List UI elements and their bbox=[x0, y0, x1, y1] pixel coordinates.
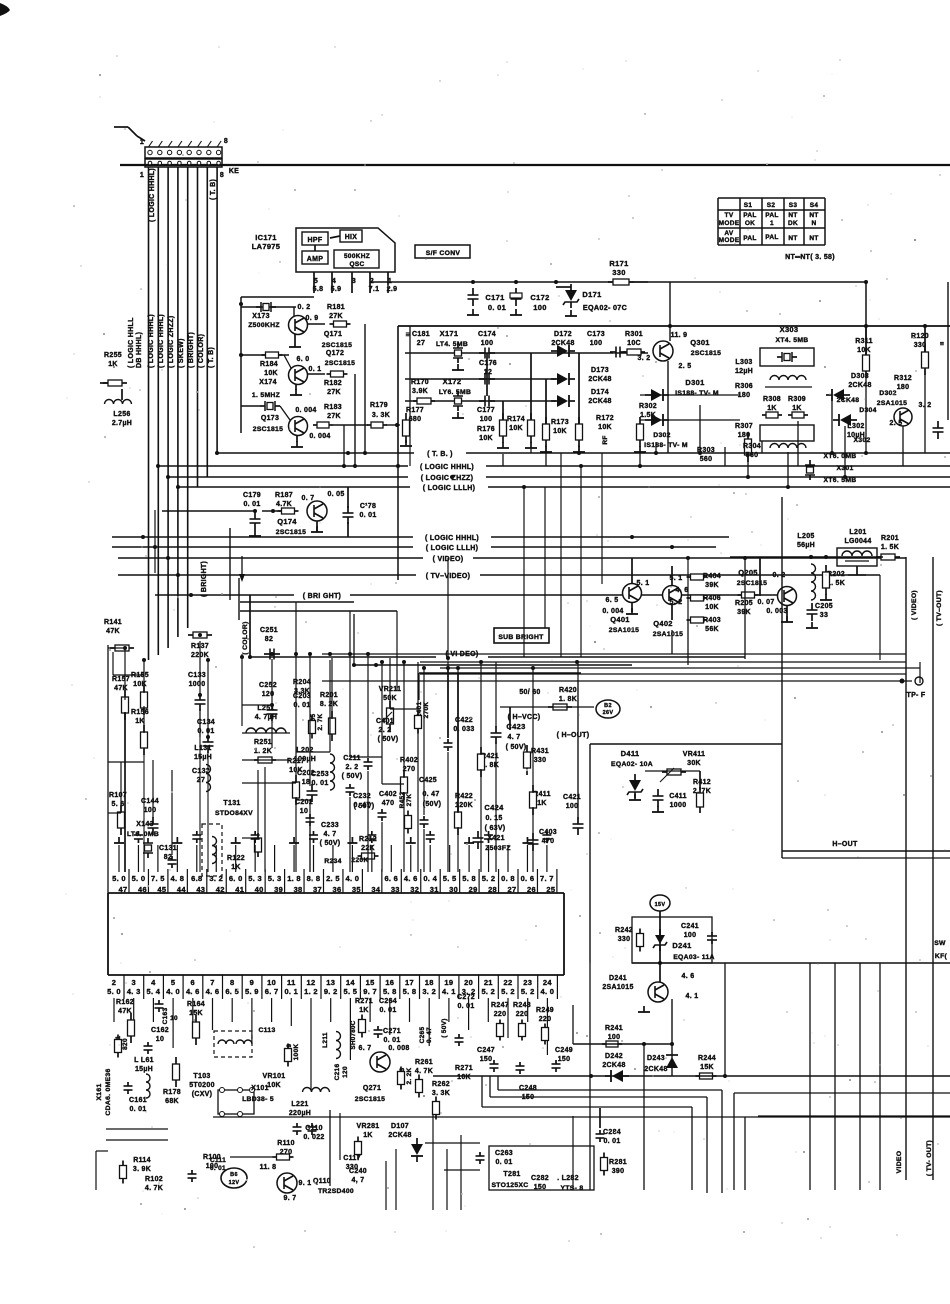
svg-text:. L282: . L282 bbox=[557, 1175, 579, 1182]
svg-text:( T. B): ( T. B) bbox=[208, 347, 215, 368]
svg-text:180: 180 bbox=[738, 392, 751, 399]
svg-text:MODE: MODE bbox=[719, 237, 740, 244]
svg-text:L303: L303 bbox=[735, 359, 752, 366]
svg-text:Q205: Q205 bbox=[738, 568, 758, 577]
svg-text:PAL: PAL bbox=[765, 212, 778, 219]
svg-text:9. 1: 9. 1 bbox=[299, 1180, 312, 1187]
svg-text:R452: R452 bbox=[399, 792, 406, 809]
svg-text:S4: S4 bbox=[810, 202, 819, 209]
svg-text:R114: R114 bbox=[133, 1157, 151, 1164]
svg-text:R156: R156 bbox=[131, 709, 149, 716]
svg-text:31: 31 bbox=[430, 885, 439, 894]
svg-text:Q173: Q173 bbox=[261, 415, 279, 422]
svg-text:HIX: HIX bbox=[345, 234, 358, 241]
svg-text:≡: ≡ bbox=[940, 341, 944, 348]
svg-text:IS188- TV- M: IS188- TV- M bbox=[675, 390, 719, 397]
svg-text:Q172: Q172 bbox=[326, 350, 344, 357]
svg-text:NT: NT bbox=[788, 235, 797, 242]
svg-text:4. 7µH: 4. 7µH bbox=[255, 714, 278, 721]
svg-text:C179: C179 bbox=[243, 492, 261, 499]
svg-text:R177: R177 bbox=[406, 407, 424, 414]
svg-text:45: 45 bbox=[157, 885, 166, 894]
svg-text:3. 9K: 3. 9K bbox=[133, 1166, 151, 1173]
svg-text:NT═NT( 3. 58): NT═NT( 3. 58) bbox=[785, 254, 835, 261]
svg-text:6. 7: 6. 7 bbox=[359, 1045, 372, 1052]
svg-text:DB HHHL): DB HHHL) bbox=[136, 332, 143, 368]
svg-text:0. 01: 0. 01 bbox=[495, 1159, 512, 1166]
svg-text:39: 39 bbox=[274, 885, 283, 894]
svg-text:3: 3 bbox=[131, 978, 135, 987]
svg-text:5: 5 bbox=[314, 278, 318, 285]
svg-text:10: 10 bbox=[170, 1015, 178, 1022]
svg-text:15: 15 bbox=[366, 978, 375, 987]
svg-text:R302: R302 bbox=[639, 403, 657, 410]
svg-text:23: 23 bbox=[523, 978, 532, 987]
svg-text:4. 6: 4. 6 bbox=[186, 987, 200, 996]
svg-text:5. 8: 5. 8 bbox=[383, 987, 397, 996]
svg-text:R164: R164 bbox=[187, 1001, 205, 1008]
svg-text:C248: C248 bbox=[519, 1085, 537, 1092]
svg-text:X171: X171 bbox=[440, 329, 459, 338]
svg-text:S1: S1 bbox=[744, 202, 753, 209]
svg-text:4: 4 bbox=[332, 278, 336, 285]
svg-text:( COLOR): ( COLOR) bbox=[242, 621, 249, 654]
svg-text:5.8: 5.8 bbox=[313, 286, 324, 293]
svg-text:4. 7: 4. 7 bbox=[324, 831, 337, 838]
svg-text:100: 100 bbox=[590, 340, 603, 347]
svg-text:5. 6: 5. 6 bbox=[112, 801, 125, 808]
svg-text:C171: C171 bbox=[485, 293, 504, 302]
svg-text:12V: 12V bbox=[229, 1180, 240, 1186]
svg-text:NT: NT bbox=[788, 212, 797, 219]
svg-text:0. 008: 0. 008 bbox=[388, 1045, 409, 1052]
svg-text:KF(: KF( bbox=[935, 953, 948, 960]
svg-text:10: 10 bbox=[156, 1036, 164, 1043]
svg-text:9. 7: 9. 7 bbox=[363, 987, 377, 996]
svg-text:5. 1: 5. 1 bbox=[637, 580, 650, 587]
svg-text:D304: D304 bbox=[859, 407, 876, 414]
svg-text:1K: 1K bbox=[359, 1007, 369, 1014]
svg-text:0. 7: 0. 7 bbox=[302, 495, 315, 502]
svg-text:46: 46 bbox=[138, 885, 147, 894]
svg-text:82: 82 bbox=[265, 636, 273, 643]
svg-text:10: 10 bbox=[267, 978, 276, 987]
svg-text:3. 3K: 3. 3K bbox=[372, 412, 390, 419]
svg-text:C401: C401 bbox=[376, 718, 394, 725]
svg-text:( T. B): ( T. B) bbox=[210, 179, 217, 200]
svg-text:R251: R251 bbox=[254, 739, 272, 746]
svg-text:R141: R141 bbox=[104, 619, 122, 626]
svg-text:D172: D172 bbox=[554, 331, 572, 338]
svg-text:R247: R247 bbox=[491, 1002, 509, 1009]
svg-text:16: 16 bbox=[385, 978, 394, 987]
svg-text:5. 2: 5. 2 bbox=[482, 874, 496, 883]
svg-text:XT6. 0MB: XT6. 0MB bbox=[824, 453, 857, 460]
svg-text:820: 820 bbox=[122, 1038, 129, 1050]
svg-text:10K: 10K bbox=[857, 347, 871, 354]
svg-text:7.1: 7.1 bbox=[369, 286, 380, 293]
svg-text:( T. B. ): ( T. B. ) bbox=[427, 451, 453, 458]
svg-text:0. 47: 0. 47 bbox=[422, 791, 439, 798]
svg-text:STDO84XV: STDO84XV bbox=[215, 810, 253, 817]
svg-text:C¹78: C¹78 bbox=[360, 503, 376, 510]
svg-text:12: 12 bbox=[307, 978, 316, 987]
svg-text:35: 35 bbox=[352, 885, 361, 894]
svg-text:68K: 68K bbox=[165, 1098, 179, 1105]
svg-text:15µH: 15µH bbox=[135, 1066, 153, 1073]
svg-text:3.9K: 3.9K bbox=[412, 388, 428, 395]
svg-text:IS188- TV- M: IS188- TV- M bbox=[644, 442, 688, 449]
svg-text:C272: C272 bbox=[457, 994, 475, 1001]
svg-text:0. 004: 0. 004 bbox=[295, 407, 316, 414]
svg-text:6: 6 bbox=[191, 978, 195, 987]
svg-text:0. 004: 0. 004 bbox=[309, 433, 330, 440]
svg-text:4. 6: 4. 6 bbox=[404, 874, 418, 883]
svg-text:18: 18 bbox=[425, 978, 434, 987]
svg-text:2CK48: 2CK48 bbox=[588, 398, 611, 405]
svg-text:LBD38- 5: LBD38- 5 bbox=[242, 1096, 274, 1103]
svg-text:10K: 10K bbox=[705, 604, 719, 611]
svg-text:39K: 39K bbox=[737, 609, 751, 616]
svg-text:L131: L131 bbox=[194, 745, 211, 752]
svg-text:R182: R182 bbox=[324, 380, 342, 387]
svg-text:2SC1815: 2SC1815 bbox=[322, 342, 352, 349]
svg-text:1K: 1K bbox=[363, 1132, 373, 1139]
svg-text:( 50V): ( 50V) bbox=[354, 803, 375, 810]
svg-text:0. 6: 0. 6 bbox=[521, 874, 535, 883]
svg-text:( BRI GHT): ( BRI GHT) bbox=[303, 593, 341, 600]
svg-text:5. 2: 5. 2 bbox=[521, 987, 535, 996]
svg-text:C211: C211 bbox=[343, 755, 361, 762]
svg-text:R420: R420 bbox=[559, 687, 577, 694]
svg-text:D241: D241 bbox=[672, 941, 691, 950]
svg-text:29: 29 bbox=[469, 885, 478, 894]
svg-text:5. 4: 5. 4 bbox=[147, 987, 161, 996]
svg-text:XT6. 5MB: XT6. 5MB bbox=[824, 477, 857, 484]
svg-text:3. 2: 3. 2 bbox=[209, 874, 223, 883]
svg-text:LA7975: LA7975 bbox=[252, 242, 280, 251]
svg-text:R309: R309 bbox=[788, 396, 806, 403]
svg-text:3. 3K: 3. 3K bbox=[432, 1090, 450, 1097]
svg-text:C423: C423 bbox=[506, 722, 525, 731]
svg-text:( 50V): ( 50V) bbox=[342, 773, 363, 780]
svg-text:X303: X303 bbox=[780, 325, 799, 334]
svg-text:C265: C265 bbox=[419, 1027, 426, 1044]
svg-text:X172: X172 bbox=[443, 377, 462, 386]
svg-text:L302: L302 bbox=[847, 423, 864, 430]
svg-text:2.7µH: 2.7µH bbox=[112, 420, 132, 427]
svg-text:PAL: PAL bbox=[743, 212, 756, 219]
svg-text:( LOGIC LLLH): ( LOGIC LLLH) bbox=[426, 545, 479, 552]
svg-text:IC171: IC171 bbox=[255, 233, 277, 242]
svg-text:0. 01: 0. 01 bbox=[379, 1007, 396, 1014]
svg-text:22: 22 bbox=[504, 978, 513, 987]
svg-text:7. 7: 7. 7 bbox=[540, 874, 554, 883]
svg-text:1: 1 bbox=[140, 172, 144, 179]
svg-text:R242: R242 bbox=[615, 927, 633, 934]
svg-text:2: 2 bbox=[112, 978, 116, 987]
svg-text:0. 8: 0. 8 bbox=[501, 874, 515, 883]
svg-text:17: 17 bbox=[405, 978, 414, 987]
svg-text:13: 13 bbox=[326, 978, 335, 987]
svg-text:C411: C411 bbox=[669, 793, 687, 800]
svg-text:10K: 10K bbox=[509, 425, 523, 432]
svg-text:( VIDEO): ( VIDEO) bbox=[911, 590, 918, 620]
svg-text:B6: B6 bbox=[230, 1172, 238, 1178]
svg-text:5. 5: 5. 5 bbox=[443, 874, 457, 883]
svg-text:11: 11 bbox=[287, 978, 296, 987]
svg-text:0. 01: 0. 01 bbox=[488, 303, 506, 312]
svg-text:C163: C163 bbox=[162, 1008, 169, 1025]
svg-text:XT4. 5MB: XT4. 5MB bbox=[776, 337, 809, 344]
svg-text:1: 1 bbox=[770, 220, 774, 227]
svg-text:1K: 1K bbox=[792, 405, 802, 412]
svg-text:C241: C241 bbox=[681, 923, 699, 930]
svg-text:180: 180 bbox=[897, 384, 910, 391]
svg-text:0. 9: 0. 9 bbox=[306, 315, 319, 322]
svg-text:C240: C240 bbox=[349, 1168, 367, 1175]
svg-text:EQA02- 10A: EQA02- 10A bbox=[611, 761, 653, 768]
svg-text:6. 0: 6. 0 bbox=[297, 356, 310, 363]
svg-text:43: 43 bbox=[196, 885, 205, 894]
svg-text:1000: 1000 bbox=[189, 681, 206, 688]
svg-text:2CK48: 2CK48 bbox=[837, 397, 860, 404]
svg-text:MODE: MODE bbox=[719, 220, 740, 227]
svg-text:1000: 1000 bbox=[670, 802, 687, 809]
svg-text:0. 2: 0. 2 bbox=[298, 304, 311, 311]
svg-text:( LOGIC LLLH): ( LOGIC LLLH) bbox=[423, 485, 476, 492]
svg-text:C263: C263 bbox=[495, 1150, 513, 1157]
svg-text:1: 1 bbox=[140, 139, 144, 146]
svg-text:1. 5K: 1. 5K bbox=[881, 544, 899, 551]
svg-text:EQA03- 11A: EQA03- 11A bbox=[673, 954, 715, 961]
svg-text:C216: C216 bbox=[334, 1064, 341, 1081]
svg-text:2SC1815: 2SC1815 bbox=[253, 426, 283, 433]
svg-text:27K: 27K bbox=[327, 413, 341, 420]
svg-text:R102: R102 bbox=[145, 1176, 163, 1183]
svg-text:( 50V): ( 50V) bbox=[378, 736, 399, 743]
svg-text:≡: ≡ bbox=[406, 330, 411, 339]
svg-text:2SC1815: 2SC1815 bbox=[325, 360, 355, 367]
svg-text:T103: T103 bbox=[193, 1073, 210, 1080]
svg-text:LT6. 0MB: LT6. 0MB bbox=[127, 831, 159, 838]
svg-text:( BRIGHT): ( BRIGHT) bbox=[201, 561, 208, 597]
svg-text:47K: 47K bbox=[106, 628, 120, 635]
svg-text:100: 100 bbox=[481, 340, 494, 347]
svg-text:6. 6: 6. 6 bbox=[384, 874, 398, 883]
svg-text:Q402: Q402 bbox=[653, 619, 673, 628]
svg-text:4. 1: 4. 1 bbox=[442, 987, 456, 996]
svg-text:2SC1815: 2SC1815 bbox=[276, 529, 306, 536]
svg-text:R262: R262 bbox=[432, 1081, 450, 1088]
svg-text:C177: C177 bbox=[477, 407, 495, 414]
svg-text:330: 330 bbox=[612, 268, 625, 277]
svg-text:27K: 27K bbox=[329, 313, 343, 320]
svg-text:2CK48: 2CK48 bbox=[551, 340, 574, 347]
svg-text:21: 21 bbox=[484, 978, 493, 987]
svg-text:C284: C284 bbox=[603, 1129, 621, 1136]
svg-text:R311: R311 bbox=[855, 338, 873, 345]
svg-text:100µH: 100µH bbox=[294, 756, 316, 763]
svg-text:Z500KHZ: Z500KHZ bbox=[248, 322, 280, 329]
svg-text:( COLOR): ( COLOR) bbox=[198, 334, 205, 368]
svg-text:Q271: Q271 bbox=[363, 1085, 381, 1092]
svg-text:EQA02- 07C: EQA02- 07C bbox=[583, 303, 627, 312]
svg-text:1K: 1K bbox=[537, 800, 547, 807]
svg-text:2. 2: 2. 2 bbox=[379, 727, 392, 734]
svg-text:10: 10 bbox=[300, 808, 308, 815]
svg-text:L201: L201 bbox=[849, 529, 866, 536]
svg-text:2. 5: 2. 5 bbox=[890, 420, 903, 427]
svg-text:100: 100 bbox=[206, 1163, 219, 1170]
svg-text:R308: R308 bbox=[763, 396, 781, 403]
svg-text:5. 8: 5. 8 bbox=[462, 874, 476, 883]
svg-text:6. 5: 6. 5 bbox=[225, 987, 239, 996]
svg-text:NT: NT bbox=[809, 212, 818, 219]
svg-text:CDA6. 0ME36: CDA6. 0ME36 bbox=[105, 1068, 112, 1115]
svg-text:4. 0: 4. 0 bbox=[541, 987, 555, 996]
svg-text:8: 8 bbox=[224, 138, 228, 145]
svg-text:TR2SD400: TR2SD400 bbox=[318, 1188, 354, 1195]
svg-text:2CK48: 2CK48 bbox=[388, 1132, 411, 1139]
svg-text:18: 18 bbox=[302, 779, 310, 786]
svg-text:VR411: VR411 bbox=[683, 751, 706, 758]
svg-text:0. 15: 0. 15 bbox=[485, 815, 502, 822]
svg-text:470: 470 bbox=[382, 800, 395, 807]
svg-text:10C: 10C bbox=[627, 340, 641, 347]
svg-text:X173: X173 bbox=[252, 313, 270, 320]
svg-text:R157: R157 bbox=[112, 676, 130, 683]
svg-text:4. 7K: 4. 7K bbox=[145, 1185, 163, 1192]
svg-text:0. 004: 0. 004 bbox=[602, 608, 623, 615]
svg-text:C252: C252 bbox=[259, 682, 277, 689]
svg-text:( TV- OUT): ( TV- OUT) bbox=[926, 1140, 933, 1176]
svg-text:56µH: 56µH bbox=[797, 542, 815, 549]
svg-text:56K: 56K bbox=[705, 626, 719, 633]
svg-text:10K: 10K bbox=[598, 424, 612, 431]
svg-text:2SC1815: 2SC1815 bbox=[355, 1096, 385, 1103]
svg-text:0. 1: 0. 1 bbox=[284, 987, 298, 996]
svg-text:R241: R241 bbox=[605, 1025, 623, 1032]
svg-text:X174: X174 bbox=[259, 379, 277, 386]
svg-text:4: 4 bbox=[151, 978, 156, 987]
svg-text:1. 8K: 1. 8K bbox=[559, 696, 577, 703]
svg-text:YTS- 8: YTS- 8 bbox=[561, 1185, 584, 1192]
svg-text:R183: R183 bbox=[324, 404, 342, 411]
svg-text:2. 7K: 2. 7K bbox=[317, 713, 324, 730]
svg-text:5. 0: 5. 0 bbox=[132, 874, 146, 883]
svg-text:5. 3: 5. 3 bbox=[268, 874, 282, 883]
svg-text:41: 41 bbox=[235, 885, 244, 894]
svg-text:D243: D243 bbox=[647, 1055, 665, 1062]
svg-text:R174: R174 bbox=[507, 416, 525, 423]
svg-text:4, 7: 4, 7 bbox=[352, 1177, 365, 1184]
svg-text:120: 120 bbox=[342, 1066, 349, 1078]
svg-text:R307: R307 bbox=[735, 423, 753, 430]
svg-text:4. 8: 4. 8 bbox=[170, 874, 184, 883]
svg-text:1K: 1K bbox=[767, 405, 777, 412]
svg-text:S/F CONV: S/F CONV bbox=[426, 250, 461, 257]
svg-text:7. 5: 7. 5 bbox=[151, 874, 165, 883]
svg-text:3. 2: 3. 2 bbox=[638, 355, 651, 362]
svg-text:30: 30 bbox=[449, 885, 458, 894]
svg-text:8. 8: 8. 8 bbox=[307, 874, 321, 883]
svg-text:9. 7: 9. 7 bbox=[284, 1195, 297, 1202]
svg-text:5. 9: 5. 9 bbox=[245, 987, 259, 996]
svg-text:T131: T131 bbox=[223, 800, 240, 807]
svg-text:4. 3: 4. 3 bbox=[127, 987, 141, 996]
svg-text:1.5K: 1.5K bbox=[640, 412, 656, 419]
svg-text:4. 6: 4. 6 bbox=[206, 987, 220, 996]
svg-text:0. 003: 0. 003 bbox=[766, 608, 787, 615]
svg-text:R248: R248 bbox=[513, 1002, 531, 1009]
svg-text:C131: C131 bbox=[159, 845, 177, 852]
svg-text:220µH: 220µH bbox=[289, 1110, 311, 1117]
svg-text:R312: R312 bbox=[894, 375, 912, 382]
svg-text:1. 2: 1. 2 bbox=[304, 987, 318, 996]
svg-text:42: 42 bbox=[216, 885, 225, 894]
svg-text:100: 100 bbox=[144, 807, 157, 814]
svg-text:VR281: VR281 bbox=[357, 1123, 380, 1130]
svg-text:11. 8: 11. 8 bbox=[260, 1164, 277, 1171]
svg-text:3: 3 bbox=[352, 278, 356, 285]
svg-text:C264: C264 bbox=[379, 998, 397, 1005]
svg-text:R402: R402 bbox=[400, 757, 418, 764]
svg-text:5. 3: 5. 3 bbox=[248, 874, 262, 883]
svg-text:( BRIGHT): ( BRIGHT) bbox=[188, 332, 195, 368]
svg-text:T281: T281 bbox=[503, 1171, 520, 1178]
svg-text:2CK48: 2CK48 bbox=[588, 376, 611, 383]
svg-text:2CK48: 2CK48 bbox=[644, 1066, 667, 1073]
svg-text:0. 01: 0. 01 bbox=[359, 512, 376, 519]
svg-text:QSC: QSC bbox=[350, 261, 365, 268]
svg-text:D107: D107 bbox=[391, 1123, 409, 1130]
svg-text:0. 47: 0. 47 bbox=[426, 1027, 433, 1043]
svg-text:3. 2: 3. 2 bbox=[422, 987, 436, 996]
svg-text:220: 220 bbox=[494, 1011, 507, 1018]
svg-text:19: 19 bbox=[444, 978, 453, 987]
svg-text:Q401: Q401 bbox=[610, 615, 630, 624]
svg-text:N: N bbox=[812, 220, 817, 227]
svg-text:28: 28 bbox=[488, 885, 497, 894]
svg-text:AMP: AMP bbox=[307, 256, 323, 263]
svg-text:D173: D173 bbox=[591, 367, 609, 374]
svg-text:5. 5: 5. 5 bbox=[344, 987, 358, 996]
svg-text:SH0780C: SH0780C bbox=[350, 1020, 357, 1049]
svg-text:C424: C424 bbox=[484, 803, 504, 812]
svg-text:DK: DK bbox=[788, 220, 798, 227]
svg-text:100: 100 bbox=[533, 303, 546, 312]
svg-text:10K: 10K bbox=[264, 370, 278, 377]
svg-text:B2: B2 bbox=[604, 703, 612, 709]
svg-text:330: 330 bbox=[534, 757, 547, 764]
svg-text:(50V): (50V) bbox=[423, 801, 442, 808]
svg-text:LG0044: LG0044 bbox=[844, 538, 871, 545]
svg-text:6. 5: 6. 5 bbox=[606, 597, 619, 604]
svg-text:D242: D242 bbox=[605, 1053, 623, 1060]
svg-text:10K: 10K bbox=[457, 1074, 471, 1081]
svg-text:L211: L211 bbox=[322, 1032, 329, 1048]
svg-text:( LOGIC HHLL: ( LOGIC HHLL bbox=[128, 317, 135, 368]
svg-text:40: 40 bbox=[255, 885, 264, 894]
svg-text:L205: L205 bbox=[797, 533, 814, 540]
svg-text:D302: D302 bbox=[653, 432, 670, 439]
svg-text:1. 8: 1. 8 bbox=[287, 874, 301, 883]
svg-text:RF: RF bbox=[602, 435, 609, 444]
svg-text:2SA1015: 2SA1015 bbox=[602, 984, 633, 991]
svg-text:X302: X302 bbox=[853, 437, 870, 444]
svg-text:( LOGIC HHHL): ( LOGIC HHHL) bbox=[148, 314, 155, 368]
